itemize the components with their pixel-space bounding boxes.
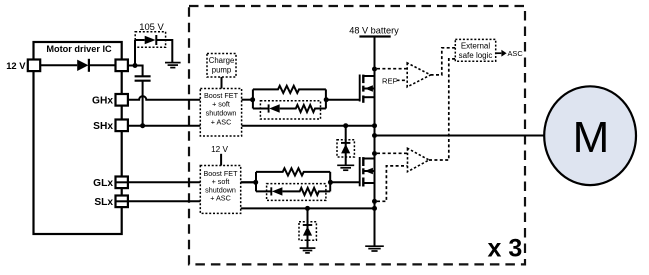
svg-text:SLx: SLx (94, 197, 113, 208)
ground (SLx clamp) (300, 248, 316, 253)
resistor R4 (gate, turn-off) (282, 188, 330, 195)
svg-text:External: External (461, 41, 491, 50)
transistor Q2 (low-side FET) (360, 157, 375, 187)
svg-text:SHx: SHx (93, 121, 113, 132)
svg-text:x 3: x 3 (488, 234, 523, 262)
svg-text:12 V: 12 V (211, 145, 228, 154)
wire/arrow to ASC (496, 52, 501, 54)
pin pad GLx (116, 177, 128, 189)
wire network to Q2 gate (330, 181, 359, 183)
svg-text:pump: pump (212, 65, 232, 74)
svg-text:+ ASC: + ASC (210, 194, 231, 203)
node source junction (372, 206, 377, 211)
diode D4 (SLx clamp) (303, 224, 312, 226)
wire bottom branch (256, 190, 272, 192)
node left of gate network (253, 180, 258, 185)
diode D6 (turn-off path) (270, 187, 272, 195)
svg-text:safe logic: safe logic (459, 51, 493, 60)
svg-text:105 V: 105 V (139, 21, 164, 32)
wire right branch vertical (325, 89, 327, 108)
motor driver IC box (34, 42, 122, 234)
wire right branch vertical (329, 172, 331, 192)
node SHx junction on main vertical (372, 123, 377, 128)
wire cap to SHx node (142, 81, 144, 125)
diode D1 (reverse-battery, inside IC) (77, 60, 88, 71)
wire U2 output to safe logic (429, 59, 455, 160)
wire clamp junction down (345, 126, 347, 165)
box around D3 (337, 140, 354, 157)
node Q2 source sense (372, 199, 377, 204)
svg-text:shutdown: shutdown (206, 109, 237, 118)
diode D5 (turn-off path) (268, 104, 270, 112)
node A junction (133, 63, 138, 68)
svg-text:M: M (573, 113, 610, 162)
wire 12V pad to diode (40, 64, 77, 66)
node SLx clamp junction (305, 206, 310, 211)
node phase to motor (372, 133, 377, 138)
wire low boost box output to source node (241, 207, 375, 209)
wire box to node (242, 99, 253, 101)
wire left branch vertical (252, 89, 254, 108)
box around D4 (299, 222, 316, 240)
svg-text:Charge: Charge (209, 56, 235, 65)
node right of gate network (328, 180, 333, 185)
wire GLx to gate network (128, 181, 256, 183)
box around 105V clamp (135, 32, 165, 48)
wire clamp to ground (171, 39, 173, 62)
wire source sense to comparator U2 (377, 166, 408, 201)
wire VM pad to node A (128, 65, 136, 67)
box charge pump (207, 54, 236, 78)
node SHx clamp junction (343, 123, 348, 128)
svg-text:REF: REF (382, 77, 398, 86)
ground (105V clamp) (165, 63, 181, 68)
box boost FET high side (200, 89, 241, 137)
wire GHx with hop over cap wire (128, 96, 200, 100)
svg-text:+ ASC: + ASC (211, 118, 232, 127)
node battery sense (372, 67, 377, 72)
pin pad GHx (116, 94, 128, 106)
svg-text:12 V: 12 V (6, 60, 26, 71)
wire network to Q1 gate (326, 99, 360, 101)
svg-text:+ soft: + soft (212, 100, 230, 109)
svg-text:48 V battery: 48 V battery (349, 26, 399, 36)
box around D5/R2 (260, 101, 320, 119)
wire diode to VM pad (89, 64, 116, 66)
wire box to node (241, 181, 256, 183)
wire node A to bootstrap cap (135, 66, 143, 76)
pin pad SHx (116, 120, 128, 132)
box around D6/R4 (267, 184, 326, 201)
wire phase node to motor (375, 135, 545, 137)
pin pad 12V (28, 60, 40, 72)
pin pad VM (top right of IC) (116, 60, 128, 72)
wire sense to comparator U1 (377, 68, 407, 70)
op-amp U2 (low-side comparator) (408, 148, 430, 171)
node right of gate network (324, 97, 329, 102)
box external safe logic (455, 39, 495, 61)
wire drain sense to comparator U2 (377, 152, 408, 154)
wire charge pump to boost box (221, 77, 223, 89)
wire SHx to phase node (128, 125, 375, 127)
wire clamp junction down (307, 208, 309, 247)
diode D2 (105V clamp) (135, 39, 145, 41)
svg-text:GLx: GLx (93, 178, 113, 189)
wire REF to comparator U1 (397, 79, 408, 81)
box boost FET low side (200, 166, 240, 214)
svg-text:GHx: GHx (92, 95, 113, 106)
battery rail bar (359, 35, 390, 37)
op-amp U1 (high-side comparator) (407, 63, 430, 87)
wire bottom branch (253, 108, 270, 110)
transistor Q1 (high-side FET) (360, 75, 375, 103)
node left of gate network (250, 97, 255, 102)
wire SLx into boost box (128, 200, 200, 202)
resistor R1 (gate, turn-on) (253, 86, 326, 93)
wire main vertical battery to ground (374, 37, 376, 246)
svg-text:Motor driver IC: Motor driver IC (46, 44, 112, 54)
wire left branch vertical (255, 172, 257, 192)
ground (SHx clamp) (337, 165, 354, 170)
wire 12V to low boost box (220, 154, 222, 166)
resistor R3 (gate, turn-on) (256, 168, 330, 175)
ground (main, below Q2) (365, 246, 384, 251)
svg-text:Boost FET: Boost FET (204, 91, 239, 100)
x3 block dashed boundary (189, 6, 525, 264)
diode D3 (SHx freewheel clamp) (341, 142, 350, 144)
wire U1 output to safe logic (431, 48, 456, 75)
resistor R2 (gate, turn-off) (280, 105, 326, 112)
capacitor C1 (bootstrap) (135, 75, 151, 77)
junction cap/SHx (140, 123, 145, 128)
pin pad SLx (116, 196, 128, 208)
wire node A up to clamp box (134, 40, 136, 66)
svg-text:ASC: ASC (508, 49, 524, 58)
motor M (544, 86, 636, 185)
node Q2 drain sense (372, 151, 377, 156)
